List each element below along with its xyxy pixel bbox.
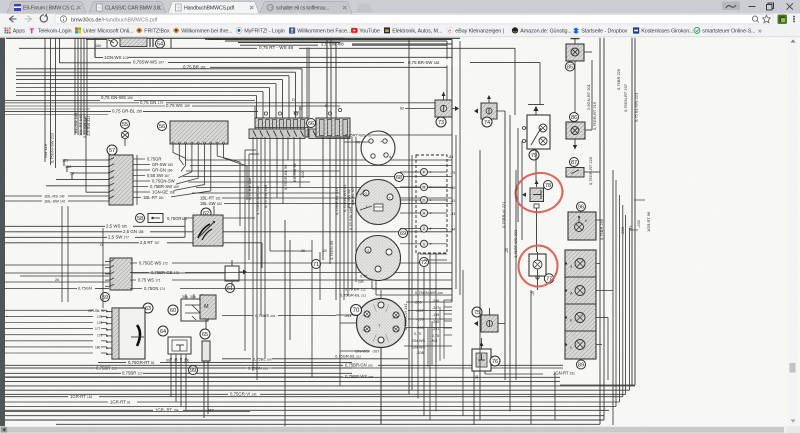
- svg-text:bmw30cs.de/HandbuchBMWCS.pdf: bmw30cs.de/HandbuchBMWCS.pdf: [71, 17, 158, 23]
- svg-text:Amazon.de: Günstig...: Amazon.de: Günstig...: [520, 29, 571, 35]
- svg-text:FRITZ!Box: FRITZ!Box: [144, 29, 170, 35]
- svg-text:Willkommen bei Ihre...: Willkommen bei Ihre...: [181, 29, 232, 35]
- svg-text:smartsteuer Online-S...: smartsteuer Online-S...: [702, 29, 755, 35]
- svg-text:E9-Forum | BMW CS C...: E9-Forum | BMW CS C...: [23, 6, 78, 12]
- svg-text:HandbuchBMWCS.pdf: HandbuchBMWCS.pdf: [184, 6, 235, 12]
- svg-text:eBay Kleinanzeigen |: eBay Kleinanzeigen |: [455, 29, 504, 35]
- svg-text:»: »: [758, 28, 762, 35]
- svg-text:T: T: [30, 26, 35, 35]
- svg-text:Kostenloses Girokon...: Kostenloses Girokon...: [641, 29, 693, 35]
- svg-text:CLASSIC CAR BMW 3.0...: CLASSIC CAR BMW 3.0...: [105, 6, 164, 12]
- svg-text:YouTube: YouTube: [359, 29, 380, 35]
- svg-text:schalter eil cs kofferrau...: schalter eil cs kofferrau...: [276, 6, 329, 12]
- svg-text:e: e: [448, 29, 451, 35]
- svg-text:Willkommen bei Face...: Willkommen bei Face...: [297, 29, 351, 35]
- svg-text:Elektronik, Autos, M...: Elektronik, Autos, M...: [392, 29, 442, 35]
- svg-text:Unter Microsoft Onli...: Unter Microsoft Onli...: [83, 29, 133, 35]
- svg-text:Startseite - Dropbox: Startseite - Dropbox: [581, 29, 627, 35]
- svg-text:Telekom-Login: Telekom-Login: [38, 29, 72, 35]
- svg-text:MyFRITZ! - Login: MyFRITZ! - Login: [244, 29, 284, 35]
- svg-text:Apps: Apps: [13, 29, 25, 35]
